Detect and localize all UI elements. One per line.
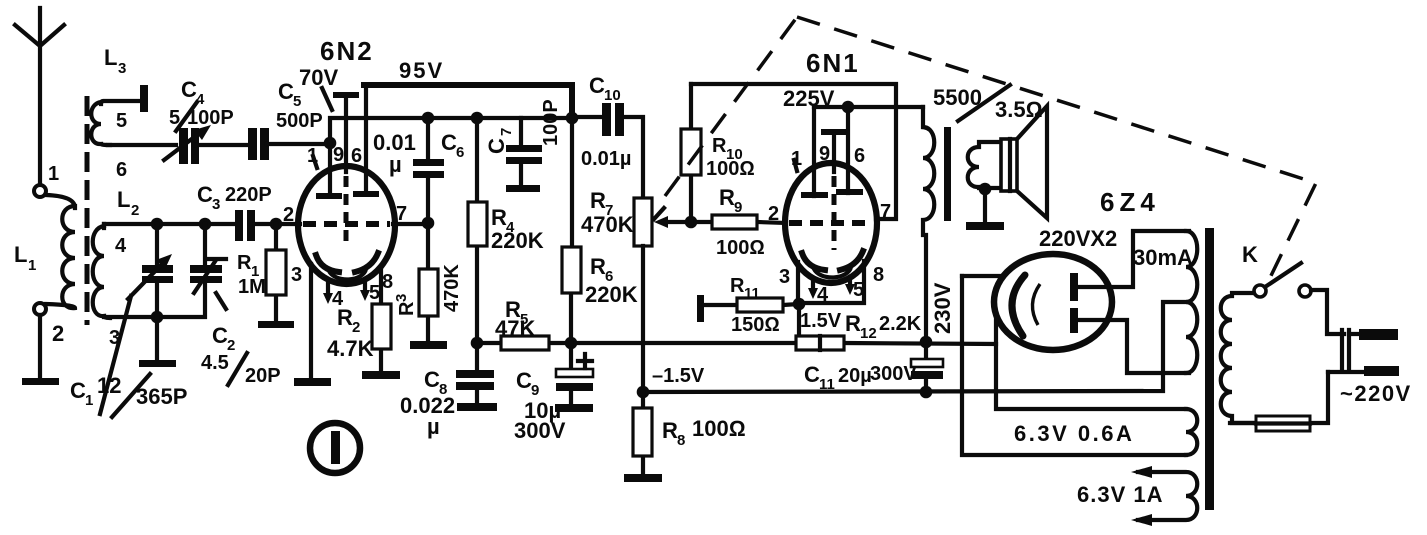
svg-text:220P: 220P bbox=[225, 184, 272, 206]
node 2 (antenna coil terminal) bbox=[34, 303, 46, 315]
switch K bbox=[1242, 242, 1311, 297]
svg-text:6N1: 6N1 bbox=[806, 48, 860, 78]
svg-text:230V: 230V bbox=[930, 282, 955, 334]
svg-text:300V: 300V bbox=[514, 418, 566, 443]
ground (C7) bbox=[506, 185, 540, 192]
svg-text:5: 5 bbox=[293, 93, 301, 110]
svg-text:3: 3 bbox=[212, 196, 220, 213]
svg-text:95V: 95V bbox=[399, 58, 444, 83]
svg-text:500P: 500P bbox=[276, 110, 323, 132]
wire C5 to grid node bbox=[267, 142, 330, 146]
svg-text:9: 9 bbox=[819, 143, 830, 165]
svg-text:2.2K: 2.2K bbox=[879, 313, 922, 335]
power transformer 6.3V 1A winding bbox=[1077, 466, 1197, 526]
6N1 heater arc bbox=[814, 267, 851, 277]
svg-text:6N2: 6N2 bbox=[320, 36, 374, 66]
svg-text:365P: 365P bbox=[136, 384, 187, 409]
feedback loop pin7 wire bbox=[691, 84, 896, 219]
node R7/R8 bbox=[637, 386, 650, 399]
svg-text:0.01µ: 0.01µ bbox=[581, 148, 631, 170]
B+ vertical 230V bbox=[962, 276, 1186, 455]
potentiometer R7 470K bbox=[581, 188, 690, 392]
resistor R9 100 ohm bbox=[691, 185, 786, 259]
6N1 pin 8 lead bbox=[799, 261, 864, 303]
svg-text:L: L bbox=[117, 187, 130, 212]
svg-text:1: 1 bbox=[48, 163, 59, 185]
node pin7/C6/R3 bbox=[422, 217, 435, 230]
capacitor C4 5/100P (trimmer) bbox=[164, 77, 234, 164]
svg-text:3: 3 bbox=[393, 294, 410, 302]
node C2 top bbox=[199, 218, 212, 231]
node speaker ground bbox=[979, 183, 992, 196]
resistor R4 220K bbox=[468, 118, 544, 343]
resistor R2 4.7K bbox=[327, 270, 391, 371]
coil L3 bbox=[91, 45, 140, 181]
node R1 top bbox=[270, 218, 283, 231]
wire pin7 line bbox=[393, 222, 428, 226]
225V plate line to output transformer bbox=[814, 105, 923, 109]
6N2 cathode arcs bbox=[316, 255, 339, 272]
6N2 grid (dashed) bbox=[303, 221, 390, 227]
svg-text:100Ω: 100Ω bbox=[706, 158, 755, 180]
svg-text:20P: 20P bbox=[245, 365, 281, 387]
6N2 plate 2 (pin 6) to 95V rail bbox=[353, 85, 379, 197]
node C11 bottom bbox=[920, 386, 933, 399]
capacitor C7 100P bbox=[484, 99, 562, 185]
ground (C8) bbox=[457, 403, 497, 411]
power transformer core bbox=[1205, 228, 1214, 510]
svg-text:4: 4 bbox=[817, 284, 829, 306]
6N2 heater arc bbox=[329, 269, 366, 279]
capacitor C6 0.01u bbox=[373, 118, 464, 223]
tube 6Z4 envelope bbox=[994, 254, 1112, 350]
svg-text:1.5V: 1.5V bbox=[800, 310, 842, 332]
svg-text:7: 7 bbox=[396, 203, 407, 225]
svg-text:6: 6 bbox=[116, 159, 127, 181]
svg-text:9: 9 bbox=[333, 144, 344, 166]
capacitor C10 0.01u bbox=[572, 73, 643, 198]
svg-text:100Ω: 100Ω bbox=[692, 416, 746, 441]
svg-text:C: C bbox=[804, 362, 820, 387]
resistor R1 1M bbox=[237, 224, 286, 321]
wire pin1 up to 0.01 line bbox=[330, 118, 572, 143]
svg-text:5: 5 bbox=[116, 110, 127, 132]
svg-text:1: 1 bbox=[28, 257, 36, 274]
svg-text:220K: 220K bbox=[491, 228, 544, 253]
svg-text:100P: 100P bbox=[187, 107, 234, 129]
6N1 heater pin 5 arrow bbox=[845, 277, 864, 301]
ground (R3) bbox=[410, 341, 447, 349]
dashed gang line left branch bbox=[665, 17, 797, 196]
svg-text:C: C bbox=[278, 79, 294, 104]
wire C3 to 6N2 grid bbox=[255, 222, 300, 226]
resistor R6 220K bbox=[562, 118, 638, 343]
svg-text:6Z4: 6Z4 bbox=[1100, 187, 1160, 217]
svg-text:6: 6 bbox=[351, 145, 362, 167]
coil L2 bbox=[93, 187, 140, 349]
6Z4 plate 1 bbox=[1070, 231, 1189, 301]
ground (L1) bbox=[22, 378, 59, 385]
wire C4 to C5 bbox=[195, 143, 247, 147]
6N2 heater pin 5 arrow bbox=[360, 281, 380, 304]
6Z4 cathode arc bbox=[1012, 275, 1025, 336]
svg-text:6: 6 bbox=[456, 144, 464, 161]
wire switch to plug bbox=[1311, 290, 1344, 334]
svg-text:C: C bbox=[589, 73, 605, 98]
capacitor C5 500P bbox=[248, 79, 332, 160]
wire L2 bottom line bbox=[104, 283, 205, 317]
svg-text:30mA: 30mA bbox=[1133, 245, 1193, 270]
95V rail bbox=[364, 85, 572, 118]
svg-text:L: L bbox=[14, 242, 27, 267]
svg-text:2: 2 bbox=[283, 204, 294, 226]
capacitor C2 4.5/20P (trimmer) bbox=[190, 224, 281, 387]
tube 6N2 envelope bbox=[298, 166, 395, 284]
output transformer core bbox=[944, 127, 951, 221]
svg-text:K: K bbox=[1242, 242, 1258, 267]
svg-text:C: C bbox=[70, 378, 86, 403]
resistor R8 100 ohm bbox=[633, 392, 746, 474]
coil L1 bbox=[14, 195, 75, 308]
svg-text:R: R bbox=[237, 252, 252, 274]
svg-text:5: 5 bbox=[369, 282, 380, 304]
svg-text:~220V: ~220V bbox=[1340, 381, 1412, 406]
node 6N1 plates bbox=[842, 101, 855, 114]
svg-text:C: C bbox=[197, 182, 213, 207]
svg-text:6: 6 bbox=[854, 145, 865, 167]
capacitor C3 220P bbox=[197, 182, 272, 241]
svg-text:R: R bbox=[712, 135, 727, 157]
6Z4 plate 2 bbox=[1070, 308, 1189, 373]
resistor R3 470K bbox=[393, 228, 463, 341]
6N1 grid top cap bbox=[821, 129, 847, 250]
ground (speaker) bbox=[966, 222, 1004, 230]
svg-text:C: C bbox=[484, 138, 509, 154]
node R9/R10/R7 arrow bbox=[685, 216, 698, 229]
svg-text:9: 9 bbox=[734, 199, 742, 216]
ground (C1) bbox=[139, 360, 176, 367]
antenna bbox=[15, 8, 64, 184]
6N1 grid (dashed) bbox=[789, 220, 872, 226]
capacitor C9 10u 300V (electrolytic) bbox=[514, 343, 593, 443]
svg-text:µ: µ bbox=[427, 414, 440, 439]
wire plug to fuse bbox=[1230, 372, 1328, 423]
circled 1 marker bbox=[310, 423, 360, 473]
svg-text:5: 5 bbox=[853, 279, 864, 301]
svg-text:R: R bbox=[845, 311, 861, 336]
svg-text:1: 1 bbox=[85, 392, 93, 409]
svg-text:2: 2 bbox=[352, 319, 360, 336]
ground (C9) bbox=[555, 404, 593, 412]
node R5/C9/R6 bbox=[565, 337, 578, 350]
svg-text:R: R bbox=[662, 418, 678, 443]
terminal bar (L3 top) bbox=[140, 85, 148, 112]
svg-text:C: C bbox=[212, 323, 228, 348]
svg-text:11: 11 bbox=[744, 285, 760, 302]
svg-text:6.3V 0.6A: 6.3V 0.6A bbox=[1014, 421, 1134, 446]
svg-text:220K: 220K bbox=[585, 282, 638, 307]
svg-text:100Ω: 100Ω bbox=[716, 237, 765, 259]
node 95V/C10/R6 bbox=[566, 112, 579, 125]
node R4/C8 bbox=[471, 337, 484, 350]
6N1 cathode arcs bbox=[802, 253, 825, 270]
dashed gang line right branch bbox=[797, 17, 1316, 286]
resistor R5 47K bbox=[495, 297, 549, 350]
mains primary winding bbox=[1221, 293, 1256, 423]
core dashed line bbox=[85, 96, 90, 325]
svg-text:C: C bbox=[181, 77, 197, 102]
svg-text:6.3V 1A: 6.3V 1A bbox=[1077, 482, 1164, 507]
wire L2 top line bbox=[104, 222, 233, 226]
svg-text:2: 2 bbox=[131, 202, 139, 219]
node R4 top bbox=[471, 112, 484, 125]
node C6 top bbox=[422, 112, 435, 125]
ground (R8) bbox=[624, 474, 662, 482]
wire R12 to C11/heater bbox=[844, 343, 996, 344]
output transformer secondary bbox=[968, 142, 1001, 188]
heater/-1.5V line bbox=[643, 302, 1187, 392]
wire L3 to C4 bbox=[108, 143, 176, 147]
svg-text:R: R bbox=[730, 275, 745, 297]
svg-text:C: C bbox=[516, 368, 532, 393]
speaker bbox=[1001, 106, 1047, 218]
6Z4 heater lead to 0.6A winding bbox=[996, 318, 1186, 409]
6N2 pin 3 lead bbox=[309, 264, 313, 378]
wire speaker ground bbox=[983, 189, 987, 222]
6N1 heater pin 4 arrow bbox=[808, 281, 829, 306]
svg-text:R: R bbox=[396, 301, 418, 316]
svg-text:R: R bbox=[590, 254, 606, 279]
svg-text:8: 8 bbox=[677, 432, 685, 449]
wire antenna ground bbox=[38, 315, 42, 378]
svg-text:70V: 70V bbox=[299, 65, 338, 90]
power transformer 6.3V 0.6A winding bbox=[1186, 409, 1197, 455]
6N1 pin 3 lead bbox=[796, 262, 800, 304]
node C1 bottom bbox=[151, 311, 164, 324]
svg-text:1M: 1M bbox=[238, 276, 266, 298]
svg-text:4: 4 bbox=[196, 91, 205, 108]
svg-text:R: R bbox=[337, 305, 353, 330]
wire cathode to R12 bbox=[797, 304, 801, 336]
resistor R11 150 ohm bbox=[697, 275, 799, 336]
svg-text:4.5: 4.5 bbox=[201, 352, 229, 374]
capacitor C1 12/365P (variable) bbox=[70, 224, 187, 417]
6N2 grid top cap bbox=[333, 92, 359, 248]
svg-text:470K: 470K bbox=[441, 264, 463, 312]
fuse bbox=[1256, 416, 1310, 431]
svg-text:470K: 470K bbox=[581, 212, 634, 237]
node (6N2 pin1/9 junction) bbox=[324, 137, 337, 150]
mains plug bbox=[1328, 329, 1412, 406]
svg-text:R: R bbox=[590, 188, 606, 213]
ground (6N2 pin3) bbox=[294, 378, 331, 386]
svg-text:7: 7 bbox=[498, 128, 515, 136]
svg-text:µ: µ bbox=[389, 152, 402, 177]
svg-text:5500: 5500 bbox=[933, 85, 982, 110]
svg-text:12: 12 bbox=[97, 373, 121, 398]
svg-text:3: 3 bbox=[779, 266, 790, 288]
node C1 top bbox=[151, 218, 164, 231]
svg-text:3: 3 bbox=[291, 264, 302, 286]
tube 6N1 envelope bbox=[785, 163, 877, 283]
svg-text:10: 10 bbox=[604, 87, 621, 104]
svg-text:4: 4 bbox=[115, 235, 127, 257]
svg-text:8: 8 bbox=[382, 271, 393, 293]
svg-text:11: 11 bbox=[819, 376, 835, 393]
svg-text:100P: 100P bbox=[540, 99, 562, 146]
svg-text:L: L bbox=[104, 45, 117, 70]
output transformer primary bbox=[923, 85, 1042, 342]
svg-text:12: 12 bbox=[860, 325, 877, 342]
svg-text:R: R bbox=[719, 185, 735, 210]
svg-text:C: C bbox=[441, 130, 457, 155]
ground (R2) bbox=[362, 371, 400, 379]
svg-text:–1.5V: –1.5V bbox=[652, 365, 705, 387]
6N1 plate 2 (pin 6) bbox=[836, 107, 863, 195]
svg-text:R: R bbox=[491, 205, 507, 230]
svg-text:4.7K: 4.7K bbox=[327, 336, 374, 361]
B+ line to 6Z4 bbox=[962, 274, 1000, 278]
resistor R12 2.2K bbox=[796, 311, 922, 350]
6N1 plate 1 (pin 1) bbox=[801, 107, 828, 198]
resistor R10 100 ohm bbox=[681, 84, 755, 222]
svg-text:9: 9 bbox=[531, 382, 539, 399]
svg-text:8: 8 bbox=[873, 264, 884, 286]
node 1 (antenna terminal) bbox=[34, 185, 46, 197]
B+ line R4 to R5 etc bbox=[477, 341, 796, 345]
capacitor C8 0.022u bbox=[400, 343, 494, 439]
node C11 top / primary bbox=[920, 336, 933, 349]
6N2 heater pin 4 arrow bbox=[323, 284, 344, 310]
svg-text:150Ω: 150Ω bbox=[731, 314, 780, 336]
svg-text:3: 3 bbox=[118, 60, 126, 77]
node cathode junction 1.5V bbox=[793, 298, 806, 311]
power transformer HV winding 220VX2 bbox=[1186, 231, 1197, 373]
svg-text:300V: 300V bbox=[870, 363, 917, 385]
capacitor C11 20u 300V (electrolytic) bbox=[804, 342, 943, 393]
svg-text:C: C bbox=[424, 367, 440, 392]
6N2 plate 1 (pin 1) bbox=[316, 143, 342, 199]
svg-text:220VX2: 220VX2 bbox=[1039, 226, 1117, 251]
svg-text:20µ: 20µ bbox=[838, 365, 872, 387]
svg-text:47K: 47K bbox=[495, 316, 535, 341]
svg-text:2: 2 bbox=[52, 321, 64, 346]
ground (R1) bbox=[258, 321, 294, 328]
